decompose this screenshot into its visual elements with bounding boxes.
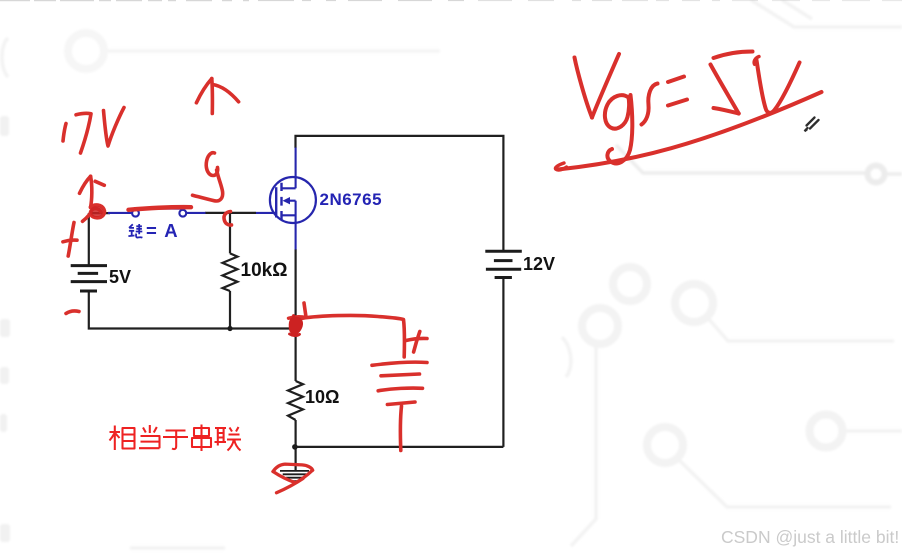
svg-text:2N6765: 2N6765 bbox=[320, 190, 383, 209]
svg-text:CSDN @just a little bit!: CSDN @just a little bit! bbox=[721, 527, 899, 547]
svg-text:5V: 5V bbox=[109, 267, 131, 287]
svg-text:= A: = A bbox=[146, 220, 179, 241]
svg-text:12V: 12V bbox=[523, 254, 555, 274]
svg-text:10kΩ: 10kΩ bbox=[241, 260, 288, 281]
svg-text:10Ω: 10Ω bbox=[305, 387, 339, 407]
